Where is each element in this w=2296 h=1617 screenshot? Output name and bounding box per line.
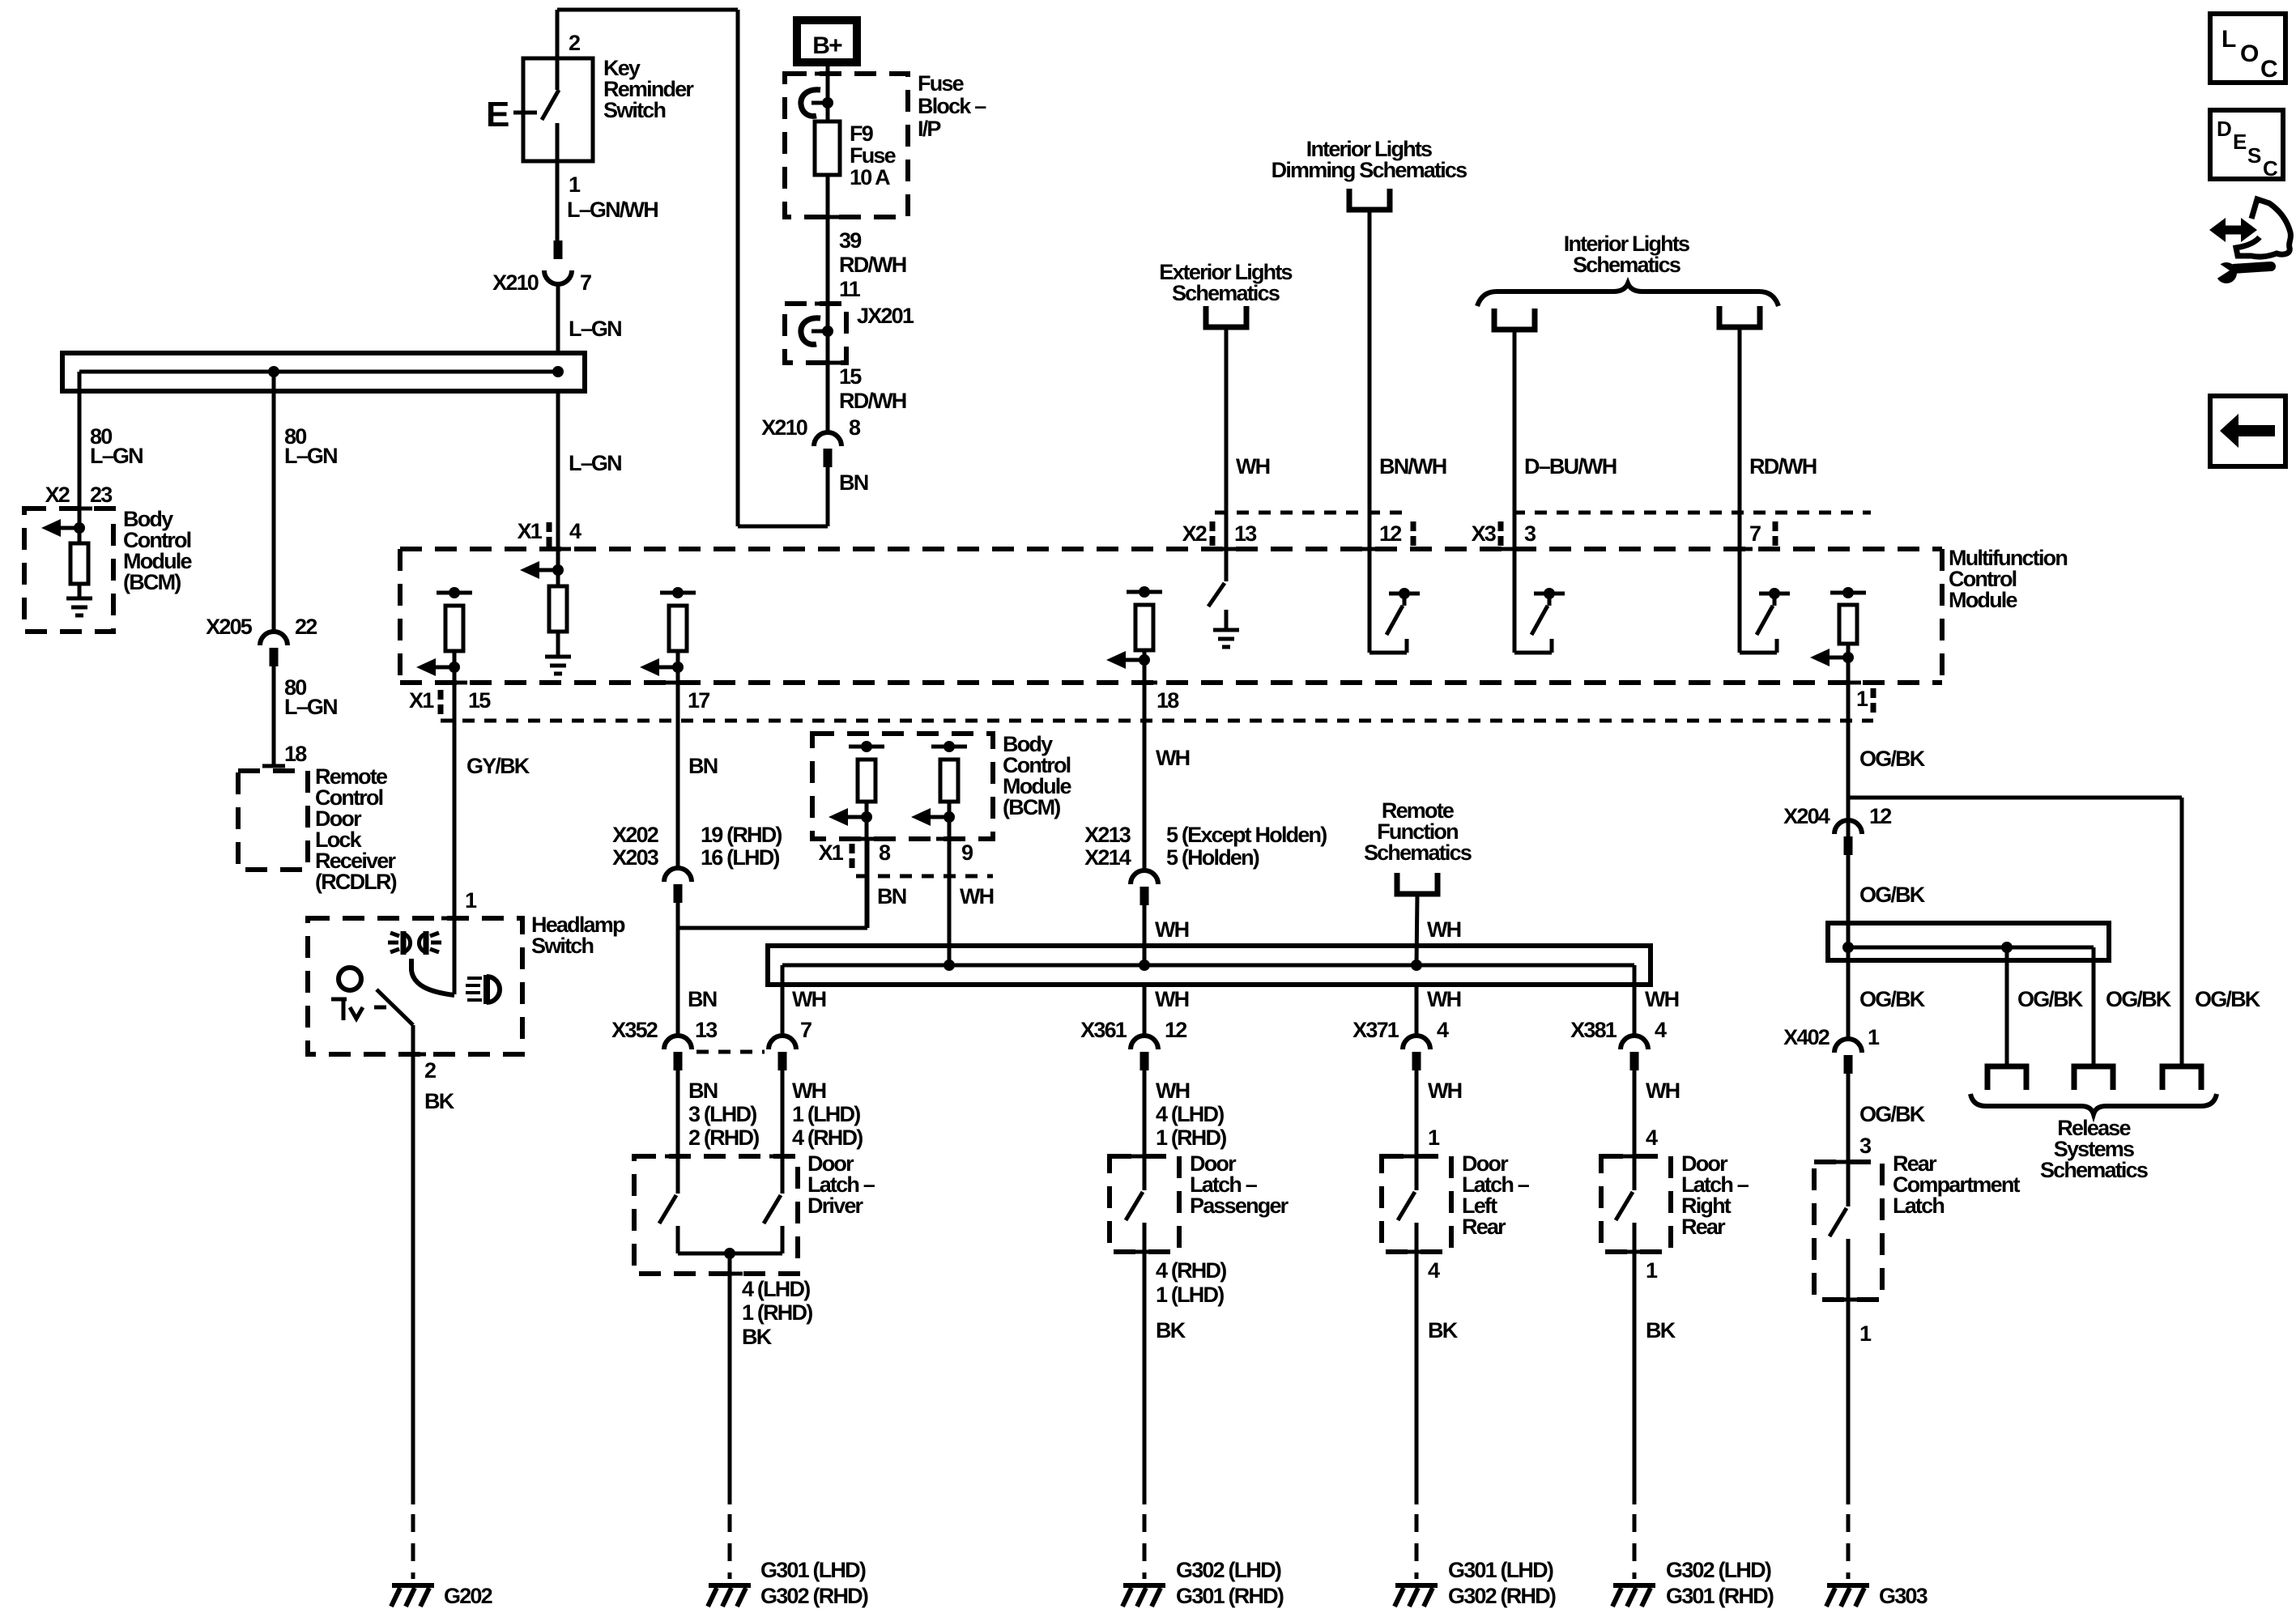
svg-text:1: 1 (1646, 1258, 1658, 1283)
off symbol (331, 998, 347, 1002)
svg-text:BK: BK (742, 1325, 773, 1349)
arrow BCM pin 9 (944, 811, 955, 823)
multifunction control module dashed box left (398, 549, 403, 683)
svg-text:OG/BK: OG/BK (1859, 747, 1926, 771)
resistor MCM pin1 tbar (1830, 591, 1866, 595)
off-page bracket interior lights left (1494, 309, 1535, 330)
resistor MCM pin 15 (445, 606, 463, 651)
svg-text:(RCDLR): (RCDLR) (315, 870, 397, 894)
rear compartment latch dashed box (1814, 1162, 1882, 1300)
door latch left rear dashed box (1382, 1156, 1451, 1252)
svg-text:Block –: Block – (918, 94, 986, 118)
tick latch top left (665, 1155, 691, 1159)
svg-text:L: L (2221, 26, 2236, 53)
door latch driver dashed box (634, 1156, 798, 1274)
svg-text:Schematics: Schematics (1573, 253, 1680, 277)
key switch blade (542, 90, 559, 120)
resistor MCM pin 18 (1135, 605, 1153, 650)
relay contact MCM pin 3 (1513, 549, 1517, 653)
off-page bracket interior dimming (1349, 189, 1390, 210)
svg-text:7: 7 (1749, 521, 1761, 546)
svg-text:WH: WH (1156, 1079, 1190, 1103)
dashed wire to G202 (411, 1514, 415, 1579)
tick MCM bottom 15 (441, 681, 467, 685)
svg-text:Latch: Latch (1893, 1194, 1944, 1218)
svg-text:4: 4 (1437, 1018, 1449, 1042)
connector X381 pin 4 (1621, 1036, 1648, 1049)
connector X361 pin 12 (1131, 1036, 1158, 1049)
svg-text:WH: WH (960, 884, 994, 908)
svg-text:Switch: Switch (603, 98, 666, 122)
tick JX201 bottom (815, 361, 841, 365)
svg-text:BK: BK (1156, 1318, 1186, 1343)
arrow MCM pin 1 (1842, 652, 1854, 663)
svg-text:BK: BK (1646, 1318, 1676, 1343)
svg-text:D–BU/WH: D–BU/WH (1524, 454, 1617, 479)
svg-text:Dimming Schematics: Dimming Schematics (1272, 158, 1467, 182)
svg-text:D: D (2217, 117, 2231, 141)
wire BN/WH interior dimming (1368, 210, 1372, 549)
junction dot (1842, 942, 1854, 953)
key reminder switch box (523, 58, 593, 161)
tick MCM top 12 (1357, 547, 1382, 551)
multifunction control module dashed box right (1940, 549, 1945, 683)
wire WH exterior lights (1225, 327, 1229, 549)
dashed wire to ground (728, 1514, 732, 1579)
connector X210 pin 7 (554, 240, 563, 259)
svg-text:2: 2 (569, 31, 580, 55)
tick BCM mid bottom 8 (854, 837, 880, 841)
splice bus S1 internal wire (79, 370, 558, 374)
wire rear compartment lower (1847, 1239, 1851, 1504)
park lamps icon (401, 931, 407, 955)
arrow into BCM pin 23 (74, 522, 85, 534)
svg-text:Rear: Rear (1462, 1215, 1506, 1239)
off-page bracket exterior lights (1206, 306, 1246, 327)
svg-text:12: 12 (1165, 1018, 1186, 1042)
svg-text:G301 (RHD): G301 (RHD) (1666, 1584, 1774, 1608)
svg-text:3 (LHD): 3 (LHD) (688, 1102, 756, 1126)
headlamp switch output (377, 989, 413, 1025)
svg-text:OG/BK: OG/BK (2106, 987, 2172, 1011)
dashed line X352 (696, 1050, 765, 1054)
svg-text:23: 23 (90, 483, 113, 507)
headlamp switch blade (411, 959, 454, 995)
tick latch bottom (717, 1272, 743, 1276)
wire L-GN to MCM (556, 391, 560, 586)
MCM connector dotted line (441, 719, 1873, 723)
svg-text:C: C (2260, 56, 2277, 83)
svg-text:X204: X204 (1783, 804, 1830, 828)
multifunction control module dashed box bottom (400, 680, 1942, 685)
junction dot (944, 960, 955, 971)
svg-text:Rear: Rear (1681, 1215, 1726, 1239)
svg-text:Fuse: Fuse (918, 71, 965, 96)
wire fuse to JX201 (826, 175, 830, 432)
wire driver latch down (728, 1253, 732, 1504)
colon X3 (1498, 521, 1504, 531)
arrow MCM pin 15 (449, 662, 460, 673)
remote control door lock receiver RCDLR dashed box (238, 771, 308, 870)
wire S2 left drop WH (781, 965, 785, 1036)
svg-text:BN: BN (839, 470, 868, 495)
bus tap symbol in fuse block (801, 90, 820, 117)
wire X371 to left rear latch (1415, 1070, 1419, 1190)
wire drop to BCM X2-23 (78, 372, 82, 528)
bus tap symbol in JX201 (801, 318, 820, 345)
svg-text:WH: WH (1155, 917, 1189, 942)
svg-text:Schematics: Schematics (2040, 1158, 2148, 1182)
arrow MCM pin 18 (1139, 654, 1150, 666)
svg-text:RD/WH: RD/WH (839, 253, 906, 277)
off symbol circle (339, 968, 361, 990)
svg-text:OG/BK: OG/BK (2017, 987, 2084, 1011)
svg-text:RD/WH: RD/WH (1749, 454, 1817, 479)
wire resistor to ground (78, 584, 82, 598)
svg-text:5 (Except Holden): 5 (Except Holden) (1166, 823, 1327, 847)
svg-text:OG/BK: OG/BK (1859, 987, 1926, 1011)
wire X205 to RCDLR (272, 666, 276, 766)
arrow MCM pin 4 (552, 564, 564, 576)
power feed B+ box (797, 20, 857, 62)
svg-text:BN: BN (877, 884, 906, 908)
svg-text:15: 15 (468, 688, 491, 713)
svg-text:15: 15 (839, 364, 862, 389)
wire X213 to bus2 (1143, 905, 1147, 965)
resistor BCM-9 tbar (931, 745, 967, 749)
wire into key switch pin 2 (556, 10, 560, 90)
svg-text:1: 1 (1868, 1025, 1880, 1049)
svg-text:X213: X213 (1084, 823, 1131, 847)
dashed wire to ground (1847, 1514, 1851, 1579)
svg-text:JX201: JX201 (857, 304, 914, 328)
svg-text:G202: G202 (444, 1584, 492, 1608)
colon BCM X1 (850, 844, 855, 853)
svg-text:(BCM): (BCM) (1003, 795, 1060, 819)
brace release systems (1970, 1094, 2217, 1114)
tick BCM left top (66, 507, 92, 511)
svg-text:I/P: I/P (918, 117, 941, 141)
svg-text:4: 4 (1646, 1126, 1658, 1150)
off-page bracket release 3 (2162, 1066, 2201, 1090)
back arrow icon box (2210, 396, 2285, 466)
splice bus S2 box (768, 946, 1651, 985)
wire S3 drop release 1 (2005, 947, 2009, 1066)
svg-text:B+: B+ (812, 32, 842, 59)
ground G303 (1827, 1583, 1869, 1588)
tick latch top (1131, 1155, 1157, 1159)
svg-text:3: 3 (1524, 521, 1536, 546)
splice bus S1 box (62, 353, 585, 391)
colon X1-4 (547, 522, 552, 532)
tick latch bottom (1404, 1250, 1429, 1254)
svg-text:G301 (LHD): G301 (LHD) (1448, 1558, 1553, 1582)
svg-text:L–GN: L–GN (90, 444, 143, 468)
junction dot (1139, 960, 1150, 971)
resistor MCM pin18 tbar (1127, 590, 1162, 594)
svg-text:4: 4 (569, 519, 581, 543)
MCM X3 connector dashed line (1513, 511, 1871, 515)
svg-text:1: 1 (1859, 1321, 1872, 1346)
svg-text:G301 (LHD): G301 (LHD) (760, 1558, 866, 1582)
wire resistor17 down (676, 651, 680, 868)
svg-text:39: 39 (839, 228, 862, 253)
colon right pin 1 (1871, 688, 1876, 698)
svg-text:1 (LHD): 1 (LHD) (792, 1102, 860, 1126)
splice bus S3 internal wire (1848, 946, 2094, 950)
wire drop to X205-22 (272, 372, 276, 632)
svg-text:OG/BK: OG/BK (2195, 987, 2261, 1011)
svg-text:G301 (RHD): G301 (RHD) (1176, 1584, 1284, 1608)
svg-text:22: 22 (295, 615, 317, 639)
splice bus S2 internal wire (782, 964, 1634, 968)
wire to resistor (78, 528, 82, 543)
MCM X2 connector dashed line (1215, 511, 1409, 515)
dashed wire to ground (1415, 1514, 1419, 1579)
svg-text:X210: X210 (492, 270, 539, 295)
arrow MCM pin 17 (672, 662, 684, 673)
hand double-arrow icon (2221, 226, 2243, 235)
LOC icon box (2210, 14, 2285, 83)
relay contact MCM pin 7 (1738, 549, 1742, 653)
fuse F9 10A (815, 121, 840, 175)
wire BN horizontal junction (678, 926, 867, 930)
svg-text:BN: BN (688, 987, 717, 1011)
svg-text:X214: X214 (1084, 845, 1131, 870)
ground in BCM left (66, 597, 92, 601)
svg-text:2 (RHD): 2 (RHD) (688, 1126, 759, 1150)
off-page bracket remote function (1397, 873, 1438, 894)
svg-text:Schematics: Schematics (1364, 840, 1472, 865)
svg-text:7: 7 (800, 1018, 811, 1042)
connector X202/X203 (664, 868, 692, 882)
svg-text:1 (RHD): 1 (RHD) (742, 1300, 812, 1325)
tick latch bottom (1835, 1298, 1861, 1302)
svg-text:4: 4 (1655, 1018, 1667, 1042)
svg-text:4: 4 (1428, 1258, 1440, 1283)
svg-text:G302 (LHD): G302 (LHD) (1176, 1558, 1281, 1582)
svg-text:L–GN: L–GN (569, 317, 621, 341)
wire BCM8 down (865, 802, 869, 928)
tick MCM bottom 18 (1131, 681, 1157, 685)
svg-text:X371: X371 (1352, 1018, 1399, 1042)
junction dot (724, 1248, 735, 1259)
svg-text:BN: BN (688, 1079, 718, 1103)
switch blade passenger (1126, 1192, 1143, 1220)
wire S3 right bend release 2 (2092, 947, 2096, 1066)
switch blade left rear (1398, 1192, 1415, 1220)
ground G301/G302 (1395, 1583, 1438, 1588)
svg-text:X1: X1 (409, 688, 434, 713)
wire WH remote function (1416, 894, 1417, 965)
svg-text:O: O (2240, 40, 2259, 67)
svg-text:X203: X203 (612, 845, 659, 870)
tick latch bottom (1131, 1250, 1157, 1254)
wire passenger lower (1143, 1223, 1147, 1504)
resistor MCM pin 1 (1839, 605, 1857, 644)
resistor in BCM left (70, 543, 88, 584)
switch blade right rear (1616, 1192, 1633, 1220)
tick MCM top 13 (1213, 547, 1239, 551)
off-page bracket release 1 (1987, 1066, 2026, 1090)
svg-text:4 (RHD): 4 (RHD) (792, 1126, 863, 1150)
tick latch top (1835, 1160, 1861, 1164)
fuse block dashed box (785, 74, 908, 217)
svg-text:13: 13 (695, 1018, 718, 1042)
wire S2 right drop (1633, 965, 1637, 1036)
brace interior lights (1477, 283, 1778, 306)
wire into headlamp switch (453, 918, 457, 994)
svg-text:WH: WH (1428, 1079, 1462, 1103)
svg-text:19 (RHD): 19 (RHD) (701, 823, 782, 847)
wire D-BU/WH (1513, 330, 1517, 549)
switch blade rear compartment (1830, 1208, 1847, 1236)
headlamp icon (483, 975, 490, 1004)
wire MCM pin1 to X204 (1847, 820, 1851, 855)
door latch right rear dashed box (1601, 1156, 1671, 1252)
wire resistor18 down (1143, 650, 1147, 870)
svg-text:1 (RHD): 1 (RHD) (1156, 1126, 1226, 1150)
svg-text:12: 12 (1379, 521, 1401, 546)
off-page bracket release 2 (2074, 1066, 2113, 1090)
resistor BCM-8 tbar (849, 745, 884, 749)
ground G302/G301 (1123, 1583, 1165, 1588)
svg-text:OG/BK: OG/BK (1859, 883, 1926, 907)
svg-text:Switch: Switch (531, 934, 594, 958)
tick MCM top 3 (1502, 547, 1527, 551)
svg-text:L–GN: L–GN (284, 695, 337, 719)
wire B+ to fuse block (826, 66, 830, 121)
svg-text:1 (LHD): 1 (LHD) (1156, 1283, 1224, 1307)
svg-text:Fuse: Fuse (850, 143, 897, 168)
svg-text:WH: WH (1427, 917, 1461, 942)
wire bus2 to X361 (1143, 985, 1147, 1036)
svg-text:X210: X210 (761, 415, 807, 440)
tick latch bottom (1621, 1250, 1647, 1254)
ground G302/G301 (1613, 1583, 1655, 1588)
resistor BCM pin 9 (940, 760, 958, 802)
wire resistor1 down (1847, 644, 1851, 820)
svg-text:(BCM): (BCM) (123, 570, 181, 594)
resistor BCM pin 8 (858, 760, 875, 802)
svg-text:X2: X2 (45, 483, 70, 507)
svg-text:3: 3 (1859, 1134, 1872, 1158)
connector X204 pin 12 (1834, 820, 1862, 834)
svg-text:X361: X361 (1080, 1018, 1127, 1042)
svg-text:18: 18 (284, 742, 307, 766)
wire driver bottom (678, 1252, 782, 1256)
svg-text:4 (RHD): 4 (RHD) (1156, 1258, 1226, 1283)
DESC icon box (2210, 110, 2283, 179)
svg-text:X1: X1 (819, 840, 844, 865)
svg-text:WH: WH (1645, 987, 1679, 1011)
svg-text:L–GN: L–GN (284, 444, 337, 468)
wire S3 to X402 (1847, 947, 1851, 1039)
svg-text:4 (LHD): 4 (LHD) (742, 1277, 810, 1301)
svg-text:WH: WH (1155, 987, 1189, 1011)
svg-text:GY/BK: GY/BK (466, 754, 530, 778)
svg-text:G302 (LHD): G302 (LHD) (1666, 1558, 1771, 1582)
tick MCM bottom pin1 (1835, 681, 1861, 685)
wire driver lower left (676, 1226, 680, 1253)
svg-text:BK: BK (424, 1089, 455, 1113)
svg-text:G302 (RHD): G302 (RHD) (1448, 1584, 1556, 1608)
tick latch top right (769, 1155, 795, 1159)
wire OG/BK branch right (1848, 796, 2182, 800)
wire left rear lower (1415, 1223, 1419, 1504)
svg-text:12: 12 (1869, 804, 1891, 828)
svg-text:E: E (486, 95, 509, 134)
wire X352-7 to driver latch (781, 1070, 785, 1194)
off-page bracket interior lights right (1719, 306, 1760, 327)
junction dot (1411, 960, 1422, 971)
svg-text:WH: WH (1236, 454, 1270, 479)
tick BCM mid bottom 9 (936, 837, 962, 841)
junction dot (552, 366, 564, 377)
svg-text:L–GN: L–GN (569, 451, 621, 475)
connector X352 pin 7 (769, 1036, 796, 1049)
multifunction control module dashed box top (400, 547, 1942, 551)
wire BCM9 down to bus (948, 802, 952, 965)
wire X381 to right rear latch (1633, 1070, 1637, 1190)
svg-text:G302 (RHD): G302 (RHD) (760, 1584, 868, 1608)
tick MCM bottom 17 (665, 681, 691, 685)
svg-text:L–GN/WH: L–GN/WH (567, 198, 658, 222)
wire to ground (556, 632, 560, 657)
wire end T-bar at RCDLR (262, 764, 285, 768)
ground in MCM (545, 655, 571, 659)
svg-text:1: 1 (1856, 687, 1868, 711)
svg-text:WH: WH (792, 1079, 826, 1103)
svg-text:1: 1 (569, 172, 581, 197)
wire X204 to bus3 (1847, 855, 1851, 947)
svg-text:13: 13 (1234, 521, 1257, 546)
wrench icon (2216, 262, 2237, 283)
svg-text:X2: X2 (1182, 521, 1207, 546)
wire bus2 to X371 (1415, 985, 1419, 1036)
connector X205 pin 22 (260, 632, 288, 645)
colon X1 left (438, 690, 444, 700)
svg-text:5 (Holden): 5 (Holden) (1166, 845, 1259, 870)
svg-text:C: C (2263, 156, 2278, 181)
tick headlamp top (441, 917, 467, 921)
svg-text:X205: X205 (206, 615, 253, 639)
tick MCM top X1-4 (545, 547, 571, 551)
svg-text:Schematics: Schematics (1172, 281, 1280, 305)
svg-text:WH: WH (792, 987, 826, 1011)
junction dot (268, 366, 279, 377)
svg-text:X402: X402 (1783, 1025, 1830, 1049)
svg-text:WH: WH (1427, 987, 1461, 1011)
wire BN below X202 (676, 903, 680, 1036)
relay contact MCM pin 12 (1368, 549, 1372, 653)
svg-text:X352: X352 (611, 1018, 658, 1042)
svg-text:BN/WH: BN/WH (1379, 454, 1446, 479)
tick JX201 top (815, 302, 841, 306)
ground G301/G302 (709, 1583, 751, 1588)
dashed wire to ground (1633, 1514, 1637, 1579)
svg-text:G303: G303 (1879, 1584, 1928, 1608)
svg-text:BK: BK (1428, 1318, 1459, 1343)
wire X361 to passenger latch (1143, 1070, 1147, 1190)
tick headlamp bottom (400, 1053, 426, 1057)
svg-text:11: 11 (839, 277, 861, 301)
door latch passenger dashed box (1110, 1156, 1179, 1252)
dash to blade (374, 1006, 386, 1010)
body control module BCM dashed box (left) (24, 509, 113, 632)
svg-text:4 (LHD): 4 (LHD) (1156, 1102, 1224, 1126)
wire driver lower right (781, 1226, 785, 1253)
